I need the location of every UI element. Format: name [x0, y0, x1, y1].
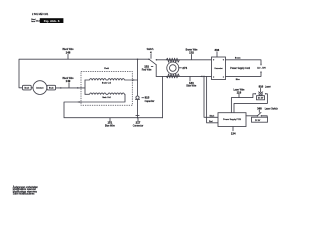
- wire: capacitor branch vertical: [137, 59, 139, 117]
- svg-text:Capacitor: Capacitor: [145, 100, 155, 103]
- brake coil L1: [85, 79, 132, 80]
- label DC 3V laser: [257, 96, 265, 100]
- leader 148: [67, 54, 69, 59]
- wire: brown rail switch to connector (Brown Wire 132): [156, 59, 211, 61]
- svg-text:Power Supply Cord: Power Supply Cord: [230, 67, 251, 70]
- svg-text:2 601 ME3 161: 2 601 ME3 161: [32, 13, 49, 16]
- label 133 Blue Wire: [189, 77, 191, 81]
- svg-text:148: 148: [66, 50, 71, 54]
- svg-text:132: 132: [189, 51, 194, 55]
- svg-text:Black: Black: [210, 116, 215, 118]
- svg-text:110 - 50V: 110 - 50V: [257, 67, 266, 69]
- svg-text:217: 217: [136, 121, 141, 125]
- wire: power cord brown: [226, 60, 262, 64]
- wire: PCB to laser switch: [246, 115, 257, 117]
- svg-text:348: 348: [257, 106, 262, 110]
- node: tee on top rail to capacitor branch: [137, 58, 139, 60]
- svg-text:Power Supply PCB: Power Supply PCB: [223, 118, 241, 121]
- leader 149: [68, 83, 70, 88]
- svg-text:Connector: Connector: [133, 125, 144, 128]
- svg-text:Red Wire: Red Wire: [142, 69, 152, 72]
- node: terminal on wire 149: [60, 87, 62, 89]
- power supply PCB 134: [218, 113, 246, 127]
- svg-text:816: 816: [259, 85, 264, 89]
- wire: main coil return + bottom rail (Blue Wire 151): [64, 94, 163, 117]
- wire: black feed to PCB: [204, 76, 218, 117]
- svg-text:Fig. Abb. 6: Fig. Abb. 6: [44, 19, 60, 23]
- connector 336: [212, 57, 226, 80]
- svg-text:274: 274: [182, 66, 187, 70]
- connector: field exit to capacitor branch: [132, 79, 137, 81]
- svg-text:Laser: Laser: [265, 86, 271, 89]
- wire: laser wire 118 lower conductor: [234, 94, 267, 113]
- svg-text:151: 151: [107, 121, 112, 125]
- connector 217 symbol on capacitor branch: [136, 114, 139, 116]
- wire: field input bracket: [84, 80, 86, 94]
- wire: red feed to PCB: [207, 76, 218, 122]
- label 274: [179, 67, 182, 69]
- label 815 Capacitor: [142, 97, 144, 99]
- laser switch 348 contacts: [257, 115, 258, 116]
- label 151 Blue Wire: [109, 118, 111, 121]
- label 217 Connector: [137, 118, 139, 121]
- svg-text:Red: Red: [209, 121, 212, 123]
- header figure box: [40, 18, 64, 23]
- laser diode 816: [255, 93, 256, 94]
- wire: laser wire 118 upper conductor: [231, 94, 255, 113]
- svg-text:149: 149: [66, 79, 71, 83]
- capacitor C 815: [136, 96, 139, 99]
- wire: switch output down (Red Wire 152): [155, 65, 157, 77]
- connector: main coil return plug: [77, 101, 79, 103]
- wire: brush to armature stubs: [31, 87, 47, 89]
- svg-text:Brown: Brown: [235, 58, 241, 60]
- junction on blue wire: [200, 76, 202, 78]
- label DC 3V switch: [252, 117, 268, 122]
- svg-text:133: 133: [189, 81, 194, 85]
- svg-text:Brush: Brush: [24, 87, 29, 89]
- wire: motor left loop and top rail (Black Wire 148): [19, 59, 149, 88]
- wire: laser switch output: [261, 116, 267, 117]
- connector: wire 149 plug into field: [77, 87, 79, 89]
- field dashed box: [81, 72, 132, 106]
- wire: blue down to bottom rail: [162, 76, 164, 117]
- svg-text:DC 3V: DC 3V: [258, 98, 264, 100]
- svg-text:Laser Switch: Laser Switch: [265, 107, 279, 110]
- main coil L2: [85, 93, 125, 94]
- svg-text:Blue Wire: Blue Wire: [105, 125, 116, 128]
- svg-text:Brake Coil: Brake Coil: [102, 82, 112, 84]
- label 134: [232, 127, 234, 131]
- motor brush 1: [23, 85, 32, 90]
- svg-text:Main Coil: Main Coil: [102, 97, 111, 99]
- svg-text:Connector: Connector: [214, 67, 223, 70]
- wire: power cord blue: [226, 73, 262, 77]
- svg-text:336: 336: [214, 48, 219, 52]
- svg-text:815: 815: [145, 96, 150, 100]
- grommet 274: [166, 58, 179, 62]
- svg-text:Brush: Brush: [49, 87, 54, 89]
- svg-text:Blue Wire: Blue Wire: [186, 85, 197, 88]
- wire: blue line (Blue Wire 133): [156, 75, 211, 77]
- motor armature: [33, 81, 47, 95]
- svg-text:134: 134: [231, 132, 236, 136]
- svg-text:Armature: Armature: [36, 86, 43, 89]
- svg-text:152: 152: [144, 64, 149, 68]
- wire: Black Wire 149 from brush to field: [56, 87, 85, 89]
- svg-text:Salvo modificaciones: Salvo modificaciones: [13, 194, 35, 196]
- svg-text:DC 3V: DC 3V: [255, 120, 261, 122]
- motor brush 2: [47, 85, 56, 90]
